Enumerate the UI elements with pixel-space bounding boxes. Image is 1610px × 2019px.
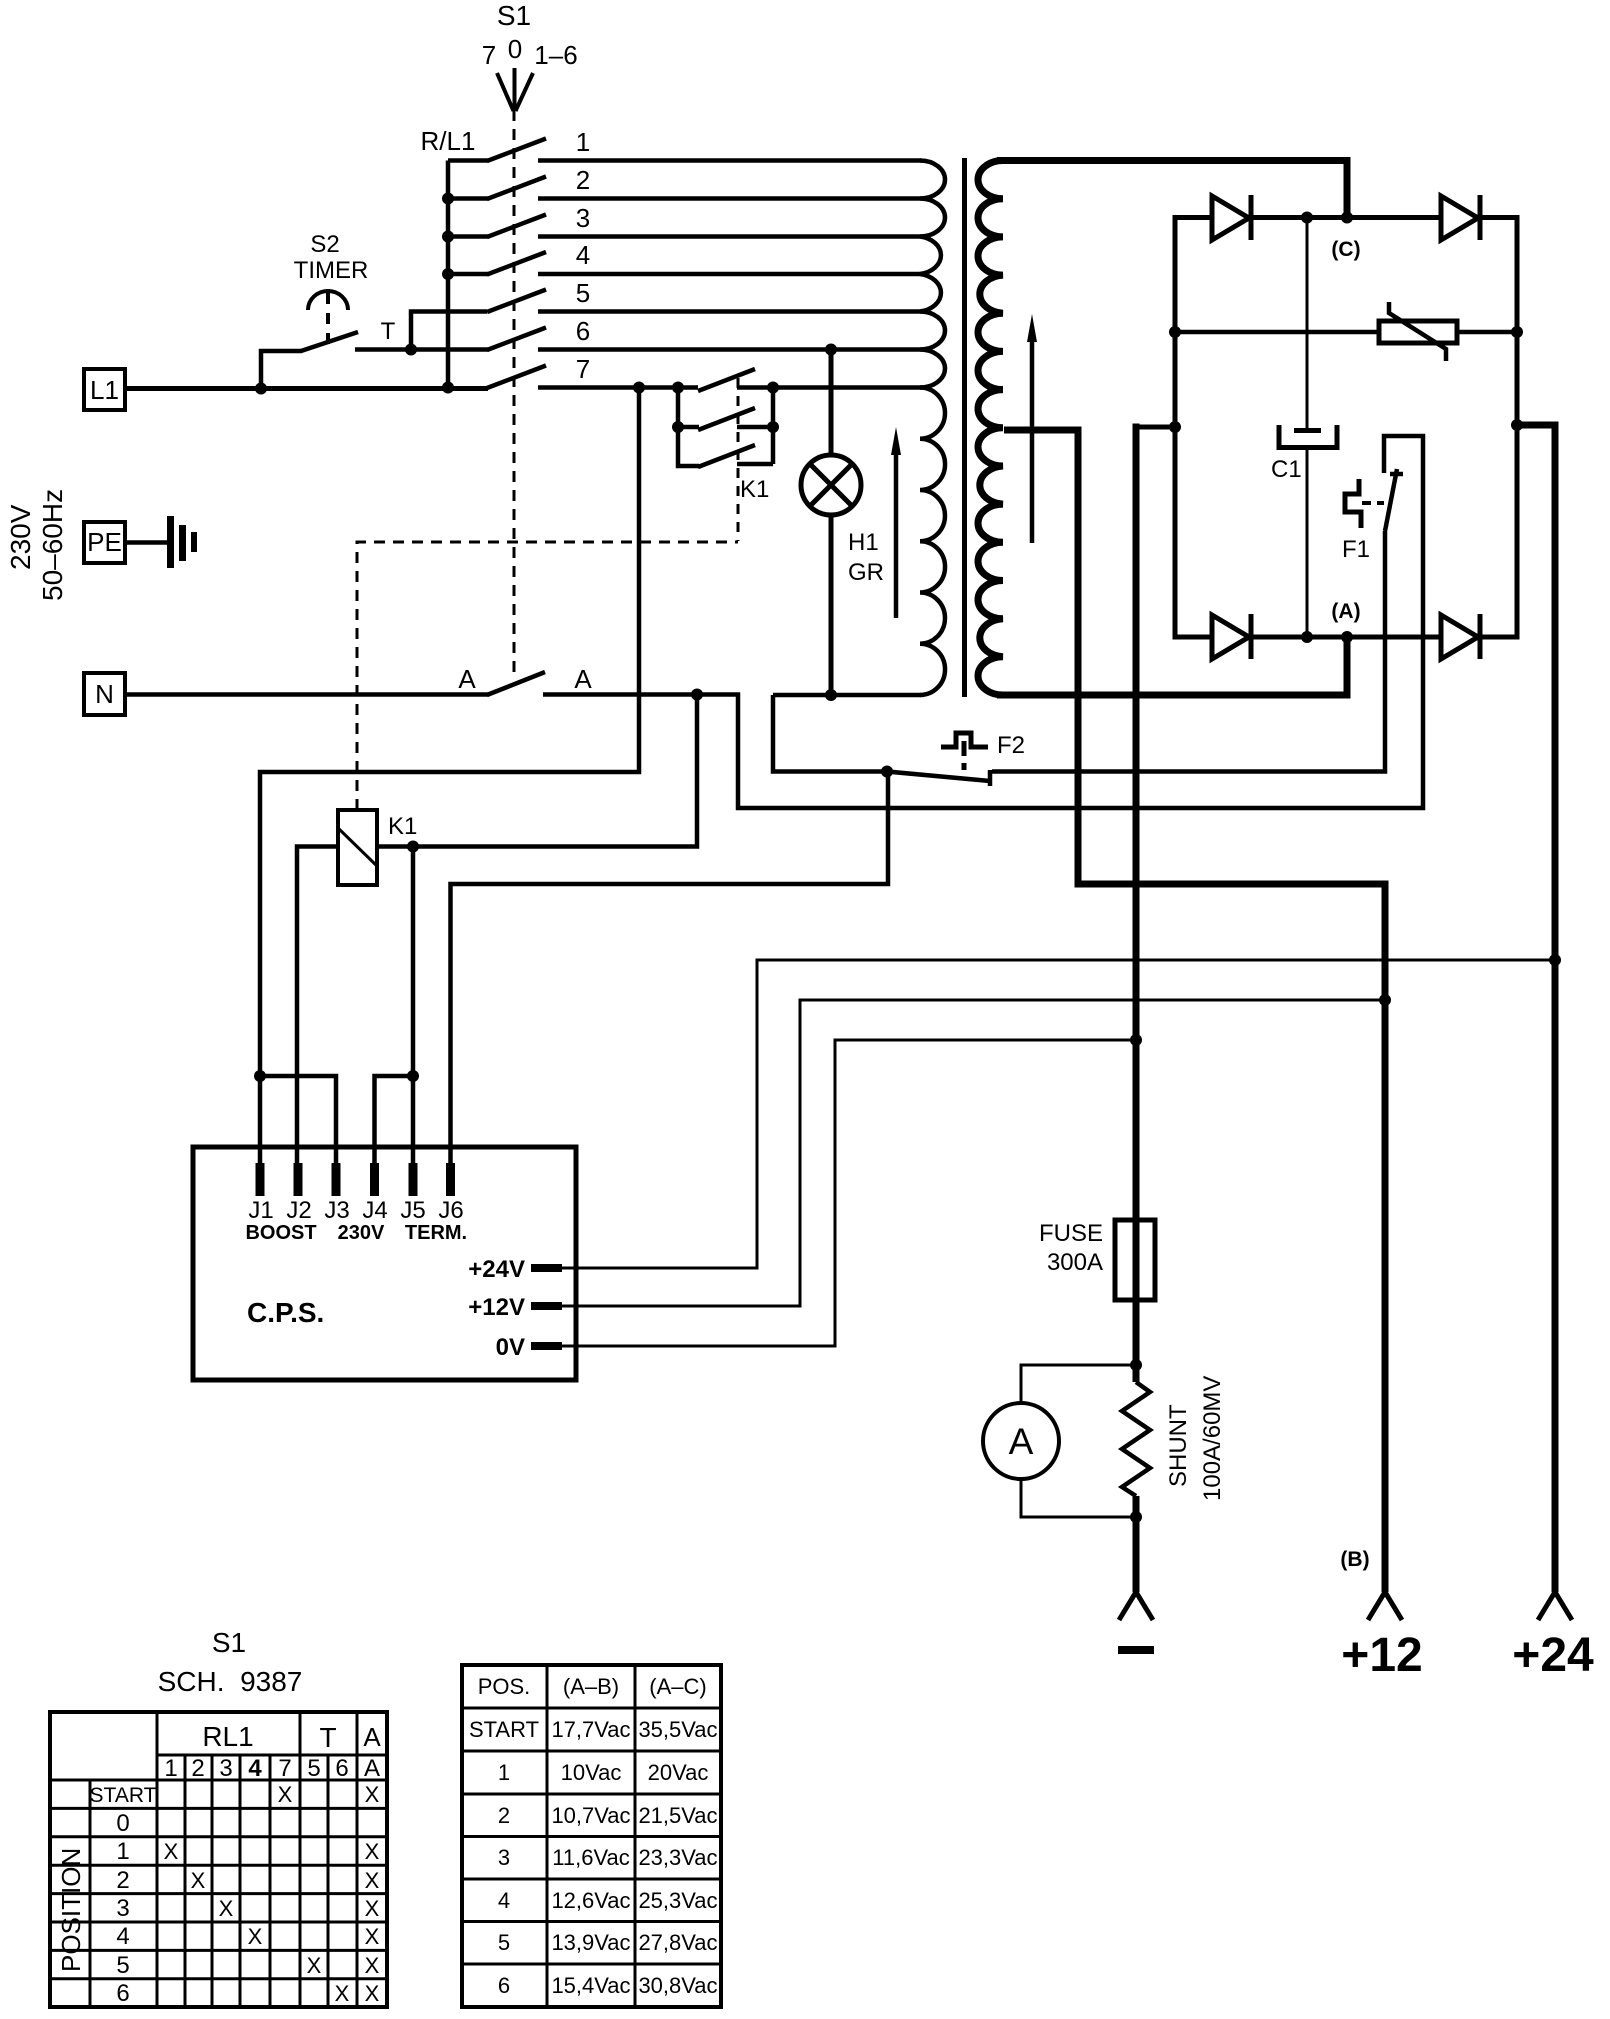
svg-text:4: 4 xyxy=(248,1755,262,1782)
K1 contact 3 fixed stub xyxy=(737,462,773,467)
wire J4 to coil pin branch xyxy=(375,1076,414,1163)
svg-text:A: A xyxy=(574,664,592,694)
capacitor C1 top plate xyxy=(1294,428,1321,433)
junction N line / K1 coil branch xyxy=(691,689,703,701)
svg-text:START: START xyxy=(90,1784,157,1807)
svg-text:+12: +12 xyxy=(1341,1629,1422,1682)
junction K1 coil pin / J4-J5 branch xyxy=(407,841,419,853)
rectifier bottom rail (A) xyxy=(1173,635,1520,640)
transformer core xyxy=(962,158,967,697)
svg-text:H1: H1 xyxy=(848,529,879,556)
svg-text:X: X xyxy=(365,1924,380,1949)
svg-text:2: 2 xyxy=(498,1803,510,1828)
svg-text:1: 1 xyxy=(164,1755,177,1782)
F1 blade top tick xyxy=(1390,472,1403,477)
junction K1 bracket mid-left xyxy=(672,421,684,433)
wire secondary center tap to +12 terminal xyxy=(1004,430,1385,1592)
transformer primary lower winding xyxy=(920,388,945,696)
wire PE to earth xyxy=(125,540,170,545)
svg-text:X: X xyxy=(365,1782,380,1807)
S1 contact 7 blade xyxy=(487,366,546,389)
svg-text:START: START xyxy=(469,1717,539,1742)
K1 coil left pin wire to J2 xyxy=(297,847,338,1164)
svg-text:A: A xyxy=(363,1722,381,1752)
svg-text:X: X xyxy=(248,1924,263,1949)
transformer secondary winding xyxy=(978,161,1003,696)
svg-text:11,6Vac: 11,6Vac xyxy=(552,1845,629,1870)
svg-text:0: 0 xyxy=(508,34,522,64)
svg-text:(A–B): (A–B) xyxy=(563,1674,619,1699)
svg-text:2: 2 xyxy=(191,1755,204,1782)
junction K1 bracket mid-right xyxy=(767,421,779,433)
svg-text:0: 0 xyxy=(116,1810,129,1837)
K1 contact blade 2 xyxy=(698,408,755,430)
S1 contact 6 line xyxy=(538,347,921,352)
svg-text:F1: F1 xyxy=(1342,536,1370,563)
S1 selector arrow xyxy=(497,68,533,111)
S1 contact 4 line xyxy=(538,272,921,277)
svg-text:L1: L1 xyxy=(90,375,119,405)
shunt resistor zigzag xyxy=(1122,1382,1150,1496)
junction H1 on primary bottom xyxy=(825,689,837,701)
svg-text:(A): (A) xyxy=(1331,600,1360,623)
lamp H1 bottom lead xyxy=(829,515,834,695)
svg-text:15,4Vac: 15,4Vac xyxy=(551,1973,630,1998)
wire N line to F1 hook (via y808) xyxy=(543,436,1423,808)
svg-text:7: 7 xyxy=(278,1755,291,1782)
svg-text:J6: J6 xyxy=(438,1197,463,1224)
S1 table grid xyxy=(50,1712,387,2007)
S1 common bus wire xyxy=(446,161,451,388)
junction H1 on contact6 line xyxy=(825,344,837,356)
wire 0V to minus bus xyxy=(562,1040,1136,1346)
svg-text:T: T xyxy=(381,318,396,345)
svg-text:+24V: +24V xyxy=(468,1256,525,1283)
S1 contact 4 blade xyxy=(487,252,546,275)
F2 dashed actuator xyxy=(962,741,967,770)
diode D4 (bottom right) xyxy=(1441,614,1480,659)
junction ammeter top xyxy=(1130,1359,1142,1371)
K1 coil diagonal mark xyxy=(338,828,377,866)
terminal stub J6 xyxy=(446,1163,455,1196)
S1 contact 6 blade xyxy=(487,328,546,351)
svg-text:K1: K1 xyxy=(388,813,417,840)
svg-text:J2: J2 xyxy=(286,1197,311,1224)
output stub +12V xyxy=(531,1302,562,1310)
svg-text:(A–C): (A–C) xyxy=(649,1674,706,1699)
svg-text:N: N xyxy=(95,679,114,709)
terminal box PE xyxy=(84,522,125,563)
junction varistor left xyxy=(1169,326,1181,338)
S1 contact 3 line xyxy=(538,234,921,239)
lamp H1 xyxy=(801,455,861,515)
output stub +24V xyxy=(531,1264,562,1272)
svg-text:1: 1 xyxy=(116,1838,129,1865)
S1 table row labels xyxy=(90,1784,157,2007)
svg-text:5: 5 xyxy=(307,1755,320,1782)
S1 table column numbers xyxy=(164,1755,380,1782)
svg-text:5: 5 xyxy=(576,278,590,308)
lamp H1 cross stroke 1 xyxy=(810,464,852,506)
relay coil K1 xyxy=(338,810,377,885)
minus bus wire upper xyxy=(1133,424,1140,1383)
junction C1 top xyxy=(1301,212,1313,224)
svg-text:FUSE: FUSE xyxy=(1039,1220,1103,1247)
svg-text:J5: J5 xyxy=(400,1197,425,1224)
terminal box L1 xyxy=(84,369,125,410)
junction K1 bracket top-left xyxy=(672,382,684,394)
voltage table grid xyxy=(462,1665,721,2007)
svg-text:K1: K1 xyxy=(740,476,769,503)
svg-text:J4: J4 xyxy=(362,1197,387,1224)
S2 feed wire from L1 line xyxy=(261,351,302,389)
S1 position table frame xyxy=(50,1712,387,2007)
svg-text:7: 7 xyxy=(576,354,590,384)
svg-text:1: 1 xyxy=(576,127,590,157)
svg-text:S1: S1 xyxy=(212,1627,246,1658)
junction bus to L1 line xyxy=(442,382,454,394)
junction +12V on +12 bus xyxy=(1379,994,1391,1006)
terminal stub J2 xyxy=(294,1163,303,1196)
svg-text:J1: J1 xyxy=(248,1197,273,1224)
rectifier left rail xyxy=(1173,215,1178,640)
svg-text:(B): (B) xyxy=(1340,1548,1369,1571)
voltage table text xyxy=(469,1674,718,1998)
svg-text:T: T xyxy=(319,1722,336,1753)
junction 0V on minus bus xyxy=(1130,1034,1142,1046)
svg-text:J3: J3 xyxy=(324,1197,349,1224)
+12 output terminal xyxy=(1368,1592,1402,1620)
wire F2 to F1 bottom xyxy=(992,531,1385,772)
ammeter wire top xyxy=(1021,1365,1136,1403)
relay contacts K1 right bracket xyxy=(771,388,776,465)
svg-text:3: 3 xyxy=(116,1895,129,1922)
junction varistor right xyxy=(1511,326,1523,338)
varistor diagonal stroke xyxy=(1389,302,1446,361)
rectifier top rail (C) xyxy=(1173,215,1520,220)
wire right rail to +24 terminal xyxy=(1517,425,1555,1592)
svg-text:6: 6 xyxy=(335,1755,348,1782)
F1 blade xyxy=(1385,469,1397,531)
svg-text:27,8Vac: 27,8Vac xyxy=(638,1930,717,1955)
K1 contact 2 pivot stub xyxy=(678,425,699,430)
thermal breaker F1 element xyxy=(1345,479,1361,528)
svg-text:30,8Vac: 30,8Vac xyxy=(638,1973,717,1998)
junction on bus at contact 3 xyxy=(442,231,454,243)
transformer secondary top wire xyxy=(997,161,1347,219)
varistor body xyxy=(1379,321,1457,343)
capacitor C1 bottom lead xyxy=(1306,448,1309,638)
node T wire (S2 to contact 6 pivot) xyxy=(355,347,488,352)
svg-text:+12V: +12V xyxy=(468,1294,525,1321)
wire N to contact A xyxy=(125,692,488,697)
contact A blade xyxy=(487,672,545,695)
fuse body xyxy=(1115,1220,1155,1300)
svg-text:(C): (C) xyxy=(1331,238,1360,261)
output stub 0V xyxy=(531,1342,562,1350)
ammeter A xyxy=(983,1403,1059,1479)
wire N branch to K1 coil right pin xyxy=(377,695,697,847)
svg-text:1: 1 xyxy=(498,1760,510,1785)
svg-text:5: 5 xyxy=(498,1930,510,1955)
junction contact7 line / branch xyxy=(633,382,645,394)
svg-text:35,5Vac: 35,5Vac xyxy=(638,1717,717,1742)
svg-text:X: X xyxy=(278,1782,293,1807)
junction on bus at contact 4 xyxy=(442,268,454,280)
svg-text:4: 4 xyxy=(116,1923,129,1950)
S1 table X marks xyxy=(164,1782,380,2006)
diode D3 (bottom left) xyxy=(1212,614,1251,659)
svg-text:20Vac: 20Vac xyxy=(648,1760,709,1785)
wire +24V to +24 bus xyxy=(562,960,1555,1268)
svg-text:X: X xyxy=(365,1953,380,1978)
svg-text:X: X xyxy=(164,1839,179,1864)
S1 contact 3 blade xyxy=(487,215,546,238)
junction J1/J3 branch xyxy=(254,1070,266,1082)
svg-text:21,5Vac: 21,5Vac xyxy=(638,1803,717,1828)
svg-text:23,3Vac: 23,3Vac xyxy=(638,1845,717,1870)
S1 contact 2 blade xyxy=(487,177,546,200)
S2 actuator arc xyxy=(308,291,348,310)
transformer primary winding loops xyxy=(920,161,945,388)
svg-text:2: 2 xyxy=(576,165,590,195)
S1 contact 5 line xyxy=(538,309,921,314)
terminal stub J3 xyxy=(332,1163,341,1196)
svg-text:10Vac: 10Vac xyxy=(561,1760,622,1785)
breaker F2 element xyxy=(941,733,988,747)
svg-text:X: X xyxy=(191,1868,206,1893)
svg-text:3: 3 xyxy=(219,1755,232,1782)
S1 contact 1 line xyxy=(538,158,921,163)
svg-text:X: X xyxy=(365,1868,380,1893)
svg-text:X: X xyxy=(219,1896,234,1921)
wire primary bottom to F2 pivot xyxy=(773,695,887,772)
svg-text:S2: S2 xyxy=(310,231,339,258)
svg-text:F2: F2 xyxy=(997,732,1025,759)
svg-text:SHUNT: SHUNT xyxy=(1165,1404,1192,1487)
K1 contact blade 3 xyxy=(698,445,755,467)
svg-text:5: 5 xyxy=(116,1952,129,1979)
svg-text:6: 6 xyxy=(576,316,590,346)
svg-text:S1: S1 xyxy=(497,0,531,31)
earth ground symbol xyxy=(167,516,197,568)
svg-text:10,7Vac: 10,7Vac xyxy=(551,1803,630,1828)
svg-text:RL1: RL1 xyxy=(202,1721,253,1752)
svg-text:X: X xyxy=(365,1981,380,2006)
svg-text:A: A xyxy=(1009,1421,1034,1462)
S1 contact 2 pivot wire xyxy=(448,196,488,201)
junction left rail tap xyxy=(1169,421,1181,433)
junction node T branch xyxy=(405,344,417,356)
varistor wire xyxy=(1175,330,1517,335)
junction L1 line / S2 branch xyxy=(255,383,267,395)
svg-text:SCH. 9387: SCH. 9387 xyxy=(158,1666,303,1697)
junction F2 pivot / J6 wire xyxy=(881,766,893,778)
S1 contact 7 line left xyxy=(538,385,698,390)
wire S1 contact7 branch down to CPS J1 xyxy=(260,388,639,1164)
capacitor C1 bottom plate bracket xyxy=(1279,425,1337,448)
junction +24V on +24 bus xyxy=(1549,954,1561,966)
svg-text:7: 7 xyxy=(482,40,496,70)
svg-text:C.P.S.: C.P.S. xyxy=(247,1297,324,1328)
svg-text:GR: GR xyxy=(848,559,884,586)
transformer primary bottom wire xyxy=(773,693,921,698)
terminal stub J1 xyxy=(256,1163,265,1196)
svg-text:TERM.: TERM. xyxy=(405,1222,467,1244)
junction secondary bottom to rail xyxy=(1341,631,1353,643)
S1 actuator dashed axis xyxy=(513,110,516,676)
svg-text:+24: +24 xyxy=(1512,1629,1594,1682)
wire J5 to K1 coil pin xyxy=(411,847,416,1164)
junction J4/J5 xyxy=(407,1070,419,1082)
capacitor C1 top lead xyxy=(1306,218,1309,430)
lamp H1 cross stroke 2 xyxy=(810,464,852,506)
S1 contact 1 pivot wire xyxy=(448,158,488,163)
svg-text:100A/60MV: 100A/60MV xyxy=(1199,1376,1226,1501)
terminal stub J4 xyxy=(370,1163,379,1196)
svg-text:R/L1: R/L1 xyxy=(421,126,476,156)
svg-text:POS.: POS. xyxy=(478,1674,531,1699)
S1 contact 3 pivot wire xyxy=(448,234,488,239)
svg-text:C1: C1 xyxy=(1271,456,1302,483)
junction ammeter bottom xyxy=(1130,1511,1142,1523)
S2 dashed actuator link xyxy=(326,293,330,349)
S1 contact 2 line xyxy=(538,196,921,201)
svg-text:X: X xyxy=(365,1839,380,1864)
ammeter wire bottom xyxy=(1021,1479,1136,1517)
svg-text:0V: 0V xyxy=(496,1334,525,1361)
svg-text:300A: 300A xyxy=(1047,1249,1103,1276)
svg-text:12,6Vac: 12,6Vac xyxy=(551,1888,630,1913)
S1 contact 5 pivot wire xyxy=(411,312,487,350)
svg-text:4: 4 xyxy=(498,1888,510,1913)
svg-text:2: 2 xyxy=(116,1867,129,1894)
voltage table frame xyxy=(462,1665,721,2007)
svg-text:3: 3 xyxy=(576,203,590,233)
minus output terminal xyxy=(1119,1592,1153,1620)
transformer secondary bottom wire xyxy=(997,636,1347,695)
diode D2 (top right) xyxy=(1441,195,1480,240)
S1 contact 1 blade xyxy=(487,139,546,162)
secondary sense arrow xyxy=(1030,337,1035,543)
terminal stub J5 xyxy=(409,1163,418,1196)
svg-text:13,9Vac: 13,9Vac xyxy=(551,1930,630,1955)
+24 output terminal xyxy=(1538,1592,1572,1620)
S1 contact 5 blade xyxy=(487,290,546,313)
svg-text:17,7Vac: 17,7Vac xyxy=(551,1717,630,1742)
diode D1 (top left) xyxy=(1212,195,1251,240)
svg-text:50–60Hz: 50–60Hz xyxy=(37,489,68,601)
svg-text:TIMER: TIMER xyxy=(294,257,369,284)
svg-text:230V: 230V xyxy=(338,1222,385,1244)
K1 coil dashed actuator link xyxy=(357,542,738,810)
junction K1 bracket top-right xyxy=(767,382,779,394)
svg-text:1–6: 1–6 xyxy=(534,40,577,70)
wire +12V to +12 bus xyxy=(562,1000,1385,1306)
svg-text:6: 6 xyxy=(498,1973,510,1998)
minus terminal label xyxy=(1118,1646,1154,1654)
K1 contact 2 fixed stub xyxy=(737,425,773,430)
F1 dashed actuator xyxy=(1362,501,1384,505)
svg-text:25,3Vac: 25,3Vac xyxy=(638,1888,717,1913)
rectifier right rail xyxy=(1515,215,1520,640)
svg-text:PE: PE xyxy=(87,527,122,557)
minus bus wire lower xyxy=(1133,1496,1140,1592)
junction on bus at contact 2 xyxy=(442,193,454,205)
svg-text:3: 3 xyxy=(498,1845,510,1870)
svg-text:A: A xyxy=(458,664,476,694)
svg-text:BOOST: BOOST xyxy=(245,1222,316,1244)
terminal box N xyxy=(84,673,125,715)
svg-text:A: A xyxy=(364,1755,380,1782)
svg-text:X: X xyxy=(307,1953,322,1978)
svg-text:230V: 230V xyxy=(5,504,36,570)
svg-text:6: 6 xyxy=(116,1980,129,2007)
svg-text:4: 4 xyxy=(576,240,590,270)
wire L1 to S1 xyxy=(125,386,488,391)
S1 contact 4 pivot wire xyxy=(448,272,488,277)
svg-text:X: X xyxy=(335,1981,350,2006)
control board C.P.S. box xyxy=(193,1147,576,1380)
junction right rail tap xyxy=(1511,419,1523,431)
K1 contacts dashed actuator xyxy=(737,378,740,541)
K1 contact blade 1 xyxy=(698,369,755,391)
F2 blade xyxy=(887,772,990,782)
junction secondary top to rail xyxy=(1341,212,1353,224)
svg-text:POSITION: POSITION xyxy=(56,1848,86,1972)
S2 blade xyxy=(301,332,358,351)
primary sense arrow xyxy=(894,450,899,618)
wire J6 to F2 pivot xyxy=(451,772,889,1164)
wire J1-J3 bridge xyxy=(260,1076,336,1163)
lamp H1 top lead xyxy=(829,350,834,457)
junction C1 bottom xyxy=(1301,631,1313,643)
relay contacts K1 left bracket xyxy=(678,388,699,467)
svg-text:X: X xyxy=(365,1896,380,1921)
wire left rail to minus bus xyxy=(1136,425,1175,430)
S1 contact 7 line right xyxy=(737,385,921,390)
F2 fixed contact tick xyxy=(988,770,993,786)
